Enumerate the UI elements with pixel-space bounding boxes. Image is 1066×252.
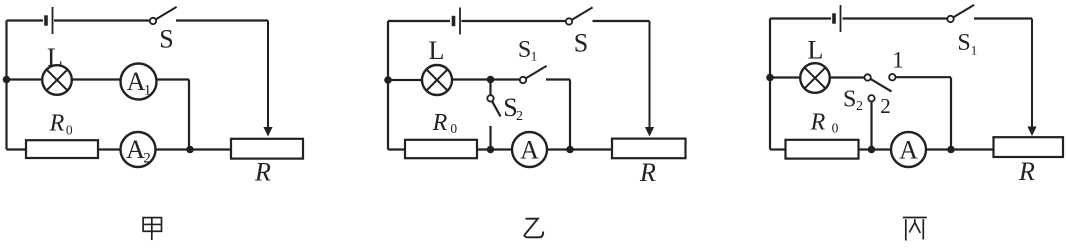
svg-text:R: R bbox=[810, 110, 826, 136]
svg-text:1: 1 bbox=[971, 43, 978, 58]
svg-text:1: 1 bbox=[531, 49, 538, 64]
svg-text:2: 2 bbox=[880, 94, 891, 118]
svg-text:S: S bbox=[159, 25, 173, 54]
svg-text:R: R bbox=[639, 158, 656, 187]
svg-text:A: A bbox=[127, 67, 146, 96]
svg-text:1: 1 bbox=[144, 83, 152, 99]
svg-text:A: A bbox=[899, 135, 918, 164]
svg-text:0: 0 bbox=[832, 120, 839, 135]
svg-text:R: R bbox=[254, 158, 271, 187]
svg-text:2: 2 bbox=[856, 99, 863, 114]
svg-text:L: L bbox=[808, 36, 824, 65]
svg-text:2: 2 bbox=[516, 109, 523, 124]
svg-text:S: S bbox=[518, 37, 531, 63]
svg-text:R: R bbox=[49, 111, 65, 137]
svg-text:1: 1 bbox=[892, 48, 904, 73]
svg-text:2: 2 bbox=[143, 151, 151, 167]
svg-text:R: R bbox=[432, 110, 448, 136]
svg-text:A: A bbox=[520, 135, 539, 164]
svg-text:A: A bbox=[126, 135, 145, 164]
svg-text:0: 0 bbox=[450, 121, 457, 136]
svg-text:L: L bbox=[429, 36, 445, 65]
svg-text:0: 0 bbox=[66, 122, 73, 137]
svg-text:S: S bbox=[843, 87, 856, 113]
svg-text:L: L bbox=[47, 43, 63, 72]
svg-text:S: S bbox=[574, 29, 588, 58]
svg-text:R: R bbox=[1018, 157, 1035, 186]
svg-text:S: S bbox=[957, 30, 970, 56]
